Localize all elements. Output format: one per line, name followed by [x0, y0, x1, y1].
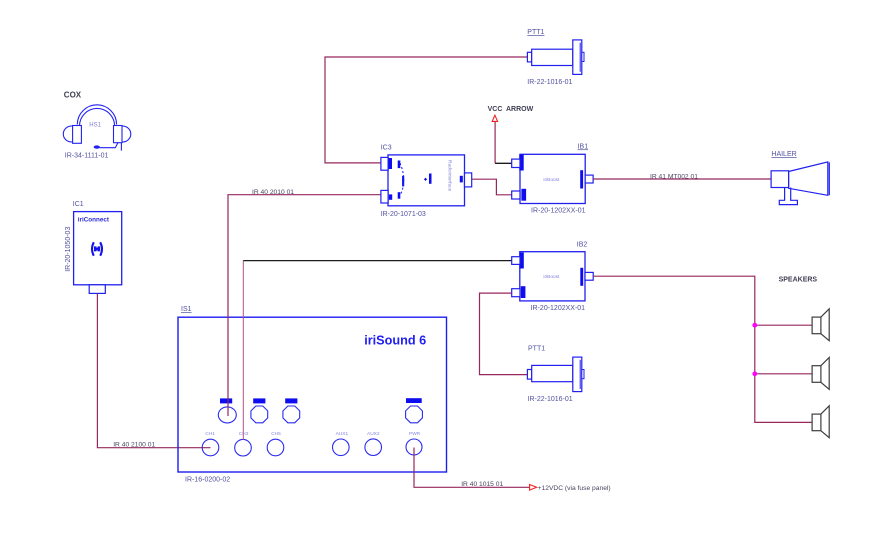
svg-text:+12VDC (via fuse panel): +12VDC (via fuse panel) [538, 485, 611, 492]
svg-text:IR-20-1202XX-01: IR-20-1202XX-01 [531, 207, 586, 214]
pin IB1 upper-left [512, 159, 520, 167]
wire branch to speaker 1 [755, 324, 812, 326]
wire IB2 right pin to speakers trunk [593, 276, 812, 422]
connector bar CH5 [285, 398, 297, 403]
svg-text:IR-20-1071-03: IR-20-1071-03 [381, 211, 426, 218]
svg-text:IR 40 1015 01: IR 40 1015 01 [461, 481, 503, 488]
pin IC3 right [460, 176, 463, 183]
svg-text:IR 40 2010 01: IR 40 2010 01 [252, 189, 294, 196]
svg-text:IC3: IC3 [381, 145, 392, 152]
module IB2 iriBoost [512, 252, 594, 301]
svg-text:IR-16-0200-02: IR-16-0200-02 [185, 477, 230, 484]
pin IC3 lower-left [381, 190, 388, 203]
svg-text:IR 41 MT002 01: IR 41 MT002 01 [650, 173, 698, 180]
svg-text:IB2: IB2 [577, 242, 588, 249]
button PTT1 top [527, 40, 584, 75]
DIN symbol inside IC3 [398, 161, 401, 169]
headset HS1 [63, 105, 131, 151]
svg-text:IR-34-1111-01: IR-34-1111-01 [65, 153, 109, 160]
wire IB1 right pin to HAILER (IR 41 MT002 01) [593, 178, 771, 180]
wire (black) VCC into IB1 [495, 162, 512, 164]
pin IB1 right [580, 170, 583, 188]
svg-text:AUX2: AUX2 [367, 431, 380, 437]
svg-text:SPEAKERS: SPEAKERS [779, 276, 818, 283]
svg-text:iriSound 6: iriSound 6 [364, 334, 426, 348]
speaker SP3 [812, 406, 829, 438]
pin IB2 upper-left [512, 257, 520, 265]
svg-text:RadioInterface: RadioInterface [447, 160, 453, 192]
connector ring CH5 [283, 406, 300, 423]
horn HAILER [771, 162, 829, 205]
connector ring PWR [406, 406, 423, 423]
wire (black) to IB2 upper pin [243, 260, 511, 262]
pin connector IC1 bottom [89, 285, 105, 294]
speaker SP1 [812, 309, 829, 341]
svg-text:AUX1: AUX1 [336, 431, 349, 437]
svg-text:COX: COX [64, 91, 82, 100]
wire branch to speaker 2 [755, 373, 812, 375]
svg-text:IB1: IB1 [578, 143, 589, 150]
pin IB2 lower-left [521, 286, 526, 298]
svg-text:PWR: PWR [409, 431, 421, 437]
svg-text:IR 40 2100 01: IR 40 2100 01 [113, 441, 155, 448]
module IC1 iriConnect [65, 212, 122, 294]
jack CH5 [267, 439, 284, 456]
wire IC3 lower pin to CH1 ring (IR 40 2010 01) [228, 195, 381, 416]
wire VCC to IB1 upper pin [494, 122, 496, 164]
junction dot speaker 2 [752, 371, 757, 376]
connector bar CH1 [220, 398, 232, 403]
jack AUX1 [333, 439, 350, 456]
amplifier IS1 iriSound 6 [178, 317, 447, 472]
wire CH3 to IB2 upper pin (vertical) [242, 261, 244, 440]
wire PWR to +12VDC (IR 40 1015 01) [414, 448, 529, 488]
power arrow +12VDC [530, 485, 537, 491]
wire IC3 right pin to IB1 lower pin [472, 179, 512, 195]
wire IC1 to CH1 [97, 294, 210, 448]
junction dot speaker 1 [752, 323, 757, 328]
jack CH1 [202, 439, 219, 456]
jack AUX2 [365, 439, 382, 456]
svg-text:iriBoost: iriBoost [543, 274, 560, 280]
svg-text:VCC ARROW: VCC ARROW [488, 106, 534, 113]
svg-text:HS1: HS1 [89, 123, 101, 129]
svg-text:CH1: CH1 [205, 431, 215, 437]
wire PTT1-top to IC3 upper pin [325, 57, 527, 163]
speaker SP2 [812, 357, 829, 389]
wire IB2 lower pin to PTT1 bottom [480, 293, 528, 375]
svg-text:iriBoost: iriBoost [543, 177, 560, 183]
svg-text:IR-20-1202XX-01: IR-20-1202XX-01 [531, 305, 586, 312]
module IC3 Radio Interface [381, 155, 472, 206]
plus mark and bar inside IC3 [424, 178, 427, 181]
button PTT1 bottom [527, 357, 584, 392]
jack CH3 [235, 439, 252, 456]
svg-text:PTT1: PTT1 [527, 29, 544, 36]
connector ring CH3 [251, 406, 268, 423]
connector bar CH3 [253, 398, 265, 403]
svg-text:CH5: CH5 [271, 431, 281, 437]
svg-text:IR-22-1016-01: IR-22-1016-01 [527, 79, 572, 86]
pin IB1 lower-left [521, 189, 526, 201]
svg-text:IS1: IS1 [181, 306, 192, 313]
connector ring CH1 [218, 407, 236, 423]
connector bar PWR [406, 398, 422, 403]
svg-text:IC1: IC1 [73, 201, 84, 208]
svg-text:iriConnect: iriConnect [78, 216, 110, 223]
svg-text:IR-22-1016-01: IR-22-1016-01 [528, 396, 573, 403]
jack PWR [406, 439, 422, 455]
svg-text:PTT1: PTT1 [528, 346, 545, 353]
module IB1 iriBoost [512, 154, 593, 203]
pin IC3 upper-left [381, 157, 388, 170]
pin IB2 right [580, 268, 583, 286]
svg-text:IR-20-1050-03: IR-20-1050-03 [65, 227, 72, 272]
svg-text:HAILER: HAILER [771, 151, 796, 158]
